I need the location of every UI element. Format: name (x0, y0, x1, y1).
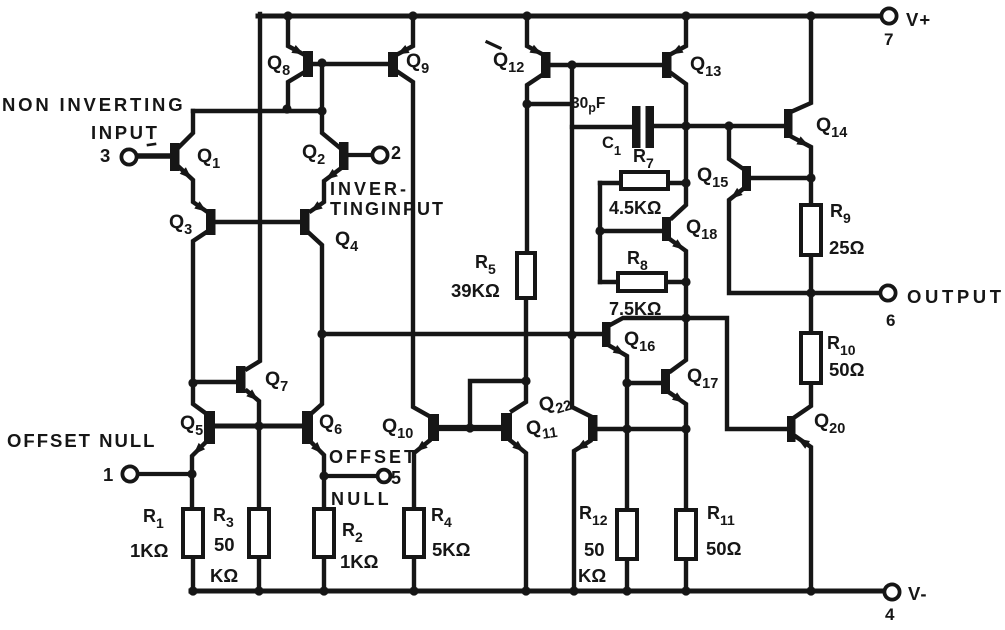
svg-text:39KΩ: 39KΩ (451, 280, 500, 301)
svg-text:TINGINPUT: TINGINPUT (330, 199, 445, 219)
svg-text:7: 7 (884, 30, 893, 49)
svg-text:INPUT: INPUT (91, 122, 160, 143)
svg-text:KΩ: KΩ (210, 565, 238, 586)
svg-text:3: 3 (100, 145, 110, 166)
svg-text:50: 50 (214, 534, 235, 555)
svg-text:50Ω: 50Ω (829, 359, 865, 380)
svg-text:KΩ: KΩ (578, 565, 606, 586)
svg-text:OFFSET: OFFSET (329, 447, 418, 467)
svg-text:OUTPUT: OUTPUT (907, 286, 1005, 307)
svg-text:4.5KΩ: 4.5KΩ (609, 198, 661, 218)
svg-text:5KΩ: 5KΩ (432, 539, 471, 560)
svg-text:4: 4 (885, 605, 895, 624)
svg-text:V-: V- (908, 583, 927, 604)
svg-text:OFFSET NULL: OFFSET NULL (7, 430, 156, 451)
svg-text:7.5KΩ: 7.5KΩ (609, 299, 661, 319)
svg-text:25Ω: 25Ω (829, 237, 865, 258)
svg-text:5: 5 (391, 468, 401, 488)
svg-text:NULL: NULL (331, 489, 392, 509)
svg-text:50: 50 (584, 539, 605, 560)
svg-text:INVER-: INVER- (330, 179, 409, 199)
svg-text:NON INVERTING: NON INVERTING (2, 94, 185, 115)
svg-text:1KΩ: 1KΩ (130, 540, 169, 561)
svg-text:1: 1 (103, 464, 113, 485)
svg-text:50Ω: 50Ω (706, 538, 742, 559)
svg-text:V+: V+ (906, 9, 931, 30)
svg-text:1KΩ: 1KΩ (340, 551, 379, 572)
svg-text:6: 6 (886, 311, 895, 330)
svg-text:2: 2 (391, 143, 401, 163)
